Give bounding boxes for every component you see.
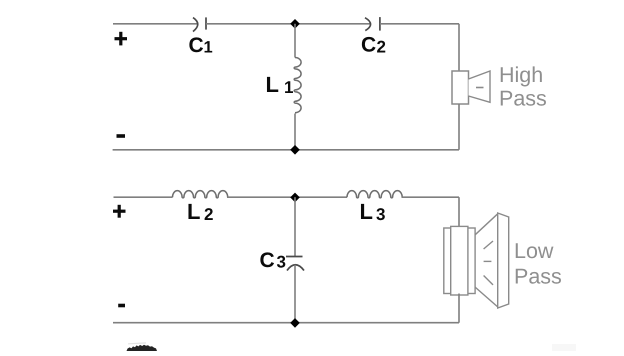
svg-text:2: 2 <box>377 38 386 57</box>
woofer cone depth marks <box>484 241 493 285</box>
svg-text:C: C <box>361 33 376 56</box>
plus terminal (top circuit) <box>115 32 128 46</box>
woofer magnet block <box>444 226 475 295</box>
wire node A down to L1 <box>294 24 296 58</box>
wire C3 to bottom wire <box>294 265 296 323</box>
wire bottom of bottom circuit <box>113 322 459 324</box>
inductor L2 <box>173 191 228 198</box>
svg-text:Pass: Pass <box>499 87 547 111</box>
wire right vertical down to woofer <box>458 197 460 228</box>
wire node C down to C3 <box>294 197 296 256</box>
svg-text:1: 1 <box>284 78 293 97</box>
svg-text:2: 2 <box>204 205 213 224</box>
capacitor C1 <box>193 17 206 31</box>
capacitor C3 <box>286 257 304 271</box>
wire L1 to bottom node <box>294 114 296 150</box>
node C junction dot <box>290 193 300 203</box>
wire bottom of top circuit <box>113 149 459 151</box>
svg-text:High: High <box>499 63 543 87</box>
svg-text:L: L <box>360 199 373 224</box>
wire top-left segment (+ terminal to L2) <box>114 196 173 198</box>
wire tweeter to bottom-right corner <box>458 104 460 150</box>
svg-text:C: C <box>189 34 204 57</box>
wire L3 to top-right corner of bottom circuit <box>402 196 460 198</box>
plus terminal (bottom circuit) <box>113 205 126 218</box>
tweeter speaker body <box>452 71 469 104</box>
watermark faint streak above scribble <box>128 342 146 344</box>
svg-text:3: 3 <box>277 253 286 272</box>
svg-text:C: C <box>260 249 275 272</box>
svg-text:1: 1 <box>204 39 213 57</box>
minus terminal (top circuit) <box>117 134 126 138</box>
watermark faint patch bottom-right <box>552 344 576 351</box>
minus terminal (bottom circuit) <box>118 304 125 308</box>
wire L2 to L3 (through node C) <box>227 196 347 198</box>
node B junction dot (bottom of L1) <box>290 145 300 155</box>
svg-text:L: L <box>266 72 279 97</box>
tweeter minus mark <box>476 87 484 89</box>
inductor L3 <box>347 191 402 198</box>
svg-text:L: L <box>187 199 200 224</box>
watermark scribble bottom-left <box>127 345 158 351</box>
svg-text:Pass: Pass <box>514 265 562 289</box>
woofer cone <box>475 213 509 308</box>
wire C2 to top-right corner <box>380 23 459 25</box>
capacitor C2 <box>365 17 380 31</box>
svg-text:3: 3 <box>376 205 385 224</box>
svg-text:Low: Low <box>514 239 554 263</box>
node D junction dot (bottom of C3) <box>290 318 300 328</box>
wire top-left segment (+ terminal to C1) <box>113 23 198 25</box>
wire C1 to C2 (through node A) <box>206 23 371 25</box>
wire woofer to bottom-right corner <box>458 294 460 323</box>
wire right vertical (corner to tweeter) <box>458 24 460 71</box>
node A junction dot (top) <box>290 19 300 29</box>
tweeter cone <box>469 71 491 102</box>
inductor L1 <box>294 58 301 113</box>
